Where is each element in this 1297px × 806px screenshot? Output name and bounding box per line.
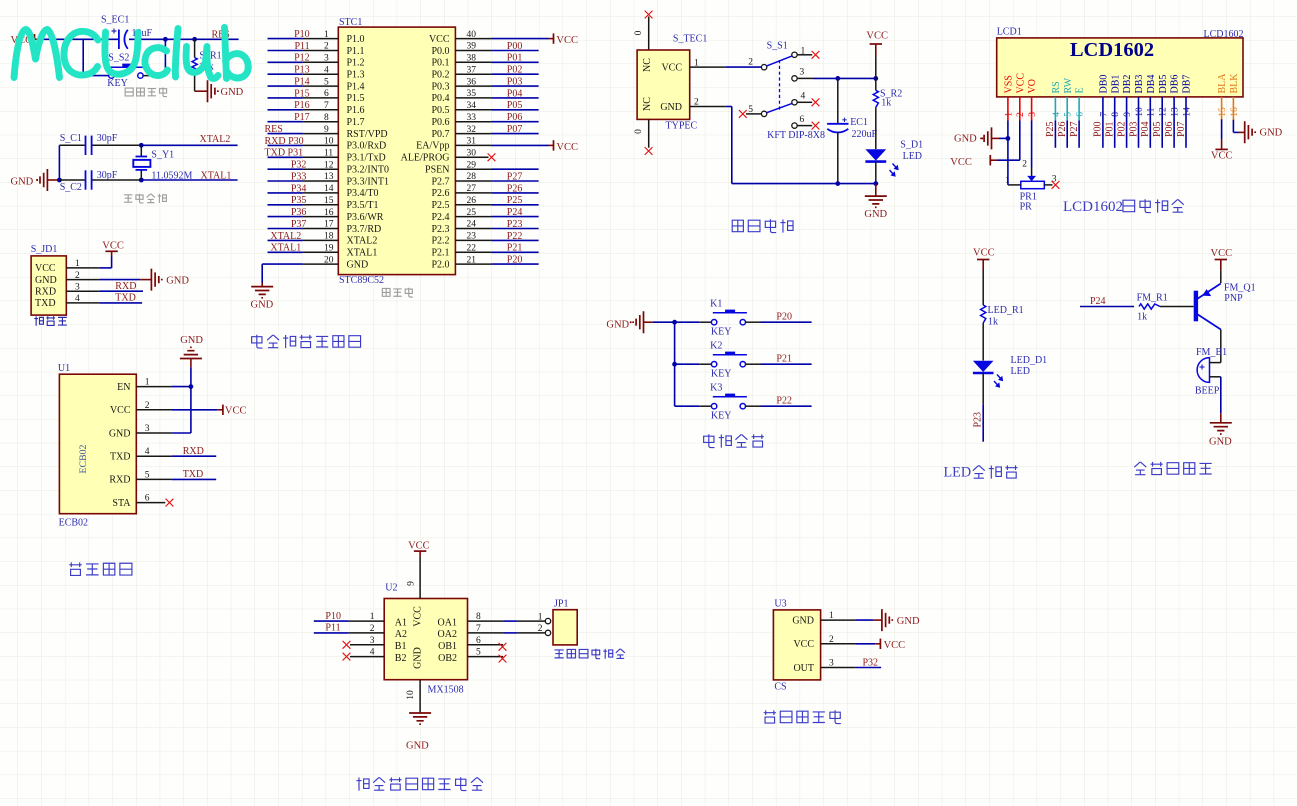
svg-text:DB6: DB6 <box>1170 75 1181 94</box>
svg-text:P2.3: P2.3 <box>431 224 449 235</box>
svg-text:5: 5 <box>1064 112 1074 117</box>
svg-text:STC89C52: STC89C52 <box>339 275 384 286</box>
svg-text:EN: EN <box>117 382 130 393</box>
LCD pin 13 stub <box>1173 97 1175 121</box>
svg-text:VCC: VCC <box>413 606 424 627</box>
svg-text:XTAL1: XTAL1 <box>201 171 232 182</box>
svg-text:1k: 1k <box>881 98 891 109</box>
svg-text:TXD P31: TXD P31 <box>265 148 304 159</box>
svg-text:P2.2: P2.2 <box>431 236 449 247</box>
svg-text:VCC: VCC <box>429 34 450 45</box>
svg-text:P16: P16 <box>294 100 310 111</box>
svg-text:KEY: KEY <box>711 411 732 422</box>
svg-text:XTAL2: XTAL2 <box>270 231 301 242</box>
LCD pin 11 stub <box>1149 97 1151 121</box>
svg-text:P20: P20 <box>776 312 792 323</box>
svg-text:P0.5: P0.5 <box>431 105 449 116</box>
resistor LED_R1 1k <box>981 305 986 323</box>
motor driver U2 body <box>384 599 467 680</box>
wire VCC to FM_Q1 emitter <box>1220 270 1222 283</box>
svg-text:P11: P11 <box>294 41 309 52</box>
svg-text:P05: P05 <box>1152 121 1163 137</box>
svg-text:S_Y1: S_Y1 <box>151 150 174 161</box>
svg-text:FM_R1: FM_R1 <box>1137 293 1168 304</box>
svg-text:GND: GND <box>347 259 369 270</box>
connector S_JD1 body <box>31 256 66 315</box>
svg-text:P25: P25 <box>1045 121 1056 137</box>
svg-text:DB5: DB5 <box>1158 75 1169 94</box>
LED S_D1 <box>865 149 886 160</box>
svg-text:6: 6 <box>1076 112 1086 117</box>
svg-text:LED_R1: LED_R1 <box>988 305 1024 316</box>
svg-text:VCC: VCC <box>950 157 972 168</box>
svg-text:GND: GND <box>897 616 920 627</box>
svg-text:4: 4 <box>1052 112 1062 117</box>
wire cap2 to xtal1 <box>92 179 141 181</box>
svg-text:P0.1: P0.1 <box>431 58 449 69</box>
svg-text:P3.6/WR: P3.6/WR <box>347 212 384 223</box>
node junction (key K2) <box>672 362 677 367</box>
svg-text:P21: P21 <box>776 354 792 365</box>
svg-text:GND: GND <box>413 647 424 669</box>
svg-text:RXD: RXD <box>183 446 204 457</box>
power port VCC (U2) <box>414 550 426 552</box>
svg-text:P10: P10 <box>325 611 341 622</box>
wire to key K1 <box>675 321 700 323</box>
svg-text:P34: P34 <box>291 183 307 194</box>
svg-text:VO: VO <box>1027 79 1038 93</box>
title 电源电路 <box>732 219 793 232</box>
svg-text:P0.3: P0.3 <box>431 81 449 92</box>
svg-text:U3: U3 <box>774 599 786 610</box>
svg-text:GND: GND <box>954 134 977 145</box>
svg-text:CS: CS <box>774 682 786 693</box>
pin 7 (U2 OA2) wire to JP1 <box>468 632 504 634</box>
svg-text:TXD: TXD <box>110 452 131 463</box>
svg-text:P0.0: P0.0 <box>431 46 449 57</box>
connector JP1 body <box>553 610 577 645</box>
ground (U3) <box>882 609 892 631</box>
LCD pin 8 stub <box>1114 97 1116 121</box>
wire P24 to FM_R1 <box>1080 306 1134 308</box>
node junction (cap right / key right) <box>163 37 168 42</box>
svg-text:XTAL1: XTAL1 <box>347 248 378 259</box>
MCU STC1 body <box>338 27 455 275</box>
node junction (resistor top) <box>192 37 197 42</box>
svg-text:P3.3/INT1: P3.3/INT1 <box>347 176 390 187</box>
svg-text:P15: P15 <box>294 88 310 99</box>
svg-text:VCC: VCC <box>661 63 682 74</box>
svg-text:VCC: VCC <box>556 142 578 153</box>
svg-text:OA2: OA2 <box>438 629 457 640</box>
wire FM_R1 to base <box>1160 306 1194 308</box>
svg-text:GND: GND <box>251 300 274 311</box>
svg-text:OB2: OB2 <box>438 653 457 664</box>
switch throw circle pin6 <box>792 123 797 128</box>
svg-text:P32: P32 <box>291 160 307 171</box>
svg-text:P1.1: P1.1 <box>347 46 365 57</box>
svg-text:RS: RS <box>1051 81 1062 93</box>
svg-text:VCC: VCC <box>110 405 131 416</box>
node junction (key K1) <box>672 320 677 325</box>
svg-text:P10: P10 <box>294 29 310 40</box>
svg-text:P01: P01 <box>1105 121 1116 137</box>
svg-text:P2.1: P2.1 <box>431 248 449 259</box>
svg-text:P35: P35 <box>291 195 307 206</box>
ground (S_JD1) <box>151 269 161 291</box>
pin wire U1 RXD <box>136 478 171 480</box>
LCD pin 10 stub <box>1138 97 1140 121</box>
svg-text:P1.4: P1.4 <box>347 81 365 92</box>
svg-text:VCC: VCC <box>1211 248 1233 259</box>
wire VCC down to node <box>875 56 877 78</box>
svg-text:KEY: KEY <box>107 78 128 89</box>
svg-text:DB2: DB2 <box>1122 75 1133 94</box>
svg-text:P3.0/RxD: P3.0/RxD <box>347 141 387 152</box>
svg-text:JP1: JP1 <box>554 599 568 610</box>
svg-text:8: 8 <box>1111 112 1121 117</box>
LCD pin 9 stub <box>1126 97 1128 121</box>
title 按键电路 <box>704 434 764 447</box>
svg-text:A2: A2 <box>395 629 407 640</box>
wire LED to bottom rail <box>875 162 877 184</box>
svg-text:S_JD1: S_JD1 <box>31 244 58 255</box>
svg-text:0: 0 <box>634 30 644 35</box>
svg-text:9: 9 <box>407 581 417 586</box>
wire U1 EN to gnd node <box>136 386 171 388</box>
svg-text:P01: P01 <box>507 53 523 64</box>
svg-text:DB0: DB0 <box>1099 75 1110 94</box>
svg-text:LCD1: LCD1 <box>997 27 1022 38</box>
switch throw circle pin1 <box>792 52 797 57</box>
svg-text:P3.4/T0: P3.4/T0 <box>347 188 379 199</box>
wire gnd up to top cap row <box>58 145 60 180</box>
svg-text:P24: P24 <box>507 207 523 218</box>
switch link (dashed) <box>779 60 781 111</box>
wire resistor to ground <box>194 74 196 92</box>
svg-text:VCC: VCC <box>884 640 906 651</box>
wire U1 VCC <box>136 409 171 411</box>
svg-text:P22: P22 <box>776 396 792 407</box>
svg-text:P06: P06 <box>1164 121 1175 137</box>
connector S_TEC1 body <box>637 50 690 119</box>
svg-text:E: E <box>1075 87 1086 93</box>
comment 晶振电路 <box>124 194 166 203</box>
power port VCC (LCD backlight) <box>1215 148 1227 150</box>
LCD pin 4 stub <box>1054 97 1056 121</box>
svg-text:P37: P37 <box>291 219 307 230</box>
switch throw circle pin4 <box>792 100 797 105</box>
svg-text:VCC: VCC <box>793 639 814 650</box>
comment 按键复位 <box>125 87 167 96</box>
svg-text:GND: GND <box>660 102 682 113</box>
svg-text:P32: P32 <box>863 658 879 669</box>
svg-text:P25: P25 <box>507 195 523 206</box>
svg-text:XTAL2: XTAL2 <box>347 236 378 247</box>
svg-text:DB3: DB3 <box>1134 75 1145 94</box>
wire TYPEC GND down and across (bottom rail) <box>731 107 733 184</box>
svg-text:NC: NC <box>642 58 653 72</box>
wire key branch bottom right <box>143 75 165 77</box>
LCD pin 12 stub <box>1161 97 1163 121</box>
svg-text:ALE/PROG: ALE/PROG <box>401 153 450 164</box>
LCD pin 3 stub <box>1031 97 1033 121</box>
svg-text:BLK: BLK <box>1229 73 1240 94</box>
svg-text:P0.4: P0.4 <box>431 93 449 104</box>
wire VCC to S_EC1 <box>43 38 118 40</box>
svg-text:P1.0: P1.0 <box>347 34 365 45</box>
svg-text:GND: GND <box>406 741 429 752</box>
svg-text:GND: GND <box>792 616 814 627</box>
wire VCC to LED_R1 <box>982 270 984 306</box>
svg-text:PR: PR <box>1020 202 1033 213</box>
svg-text:4: 4 <box>801 92 806 102</box>
svg-text:VCC: VCC <box>556 35 578 46</box>
svg-text:2: 2 <box>748 58 753 68</box>
svg-text:P1.3: P1.3 <box>347 70 365 81</box>
svg-text:P05: P05 <box>507 100 523 111</box>
wire buzzer to gnd <box>1220 377 1222 414</box>
svg-text:GND: GND <box>221 87 244 98</box>
svg-text:LCD1602: LCD1602 <box>1070 39 1154 61</box>
svg-text:XTAL1: XTAL1 <box>270 243 301 254</box>
svg-text:P12: P12 <box>294 53 310 64</box>
svg-text:13: 13 <box>1171 107 1181 117</box>
node junction (VSS/gnd/pot) <box>1006 136 1011 141</box>
svg-text:P00: P00 <box>1093 121 1104 137</box>
svg-text:RXD: RXD <box>115 281 136 292</box>
svg-text:LED: LED <box>903 151 922 162</box>
sensor U3 body <box>773 610 820 680</box>
svg-text:P13: P13 <box>294 65 310 76</box>
ground (buzzer) <box>1210 423 1232 434</box>
wire key branch bottom left <box>83 75 109 77</box>
pin 3 (U2 B1) no-connect <box>350 644 384 646</box>
svg-text:P3.5/T1: P3.5/T1 <box>347 200 379 211</box>
no-connect X (TYPEC top) <box>645 11 653 19</box>
ground (power circuit) <box>875 184 877 197</box>
resistor FM_R1 1k <box>1139 304 1160 309</box>
svg-text:P1.2: P1.2 <box>347 58 365 69</box>
ground (MCU pin 20) <box>251 287 273 298</box>
svg-text:K1: K1 <box>710 298 722 309</box>
svg-text:P23: P23 <box>973 412 984 428</box>
wire LED_R1 to LED_D1 <box>982 323 984 361</box>
wire to key K2 <box>675 363 700 365</box>
svg-text:GND: GND <box>1260 128 1283 139</box>
svg-text:NC: NC <box>642 97 653 111</box>
wire EC1 to bottom rail <box>837 132 839 183</box>
svg-text:P11: P11 <box>325 623 340 634</box>
svg-text:VSS: VSS <box>1004 75 1015 93</box>
svg-text:6: 6 <box>800 115 805 125</box>
transistor FM_Q1 PNP <box>1194 291 1198 322</box>
svg-text:P3.2/INT0: P3.2/INT0 <box>347 165 390 176</box>
svg-text:9: 9 <box>1123 112 1133 117</box>
LCD pin 5 stub <box>1066 97 1068 121</box>
svg-text:3: 3 <box>1028 112 1038 117</box>
svg-text:2: 2 <box>538 624 543 634</box>
svg-text:1k: 1k <box>1137 311 1147 322</box>
svg-text:2: 2 <box>1022 159 1027 169</box>
wire BLA to VCC <box>1221 119 1223 139</box>
svg-text:P00: P00 <box>507 41 523 52</box>
ground (U2) <box>409 713 431 724</box>
pin wire U1 TXD <box>136 455 171 457</box>
svg-text:RW: RW <box>1063 77 1074 93</box>
resistor S_R2 1k <box>875 78 877 90</box>
svg-text:TXD: TXD <box>35 298 56 309</box>
svg-text:FM_B1: FM_B1 <box>1196 347 1227 358</box>
LED LED_D1 <box>973 361 994 372</box>
svg-text:PNP: PNP <box>1224 293 1243 304</box>
crystal S_Y1 <box>139 143 144 148</box>
wire cap1 to xtal2 <box>92 144 141 146</box>
svg-text:GND: GND <box>864 209 887 220</box>
svg-text:RXD P30: RXD P30 <box>265 136 304 147</box>
svg-text:1: 1 <box>538 612 543 622</box>
svg-text:11: 11 <box>1147 107 1157 116</box>
LCD pin 15 stub <box>1221 97 1223 121</box>
svg-text:P2.6: P2.6 <box>431 188 449 199</box>
LCD pin 2 stub <box>1019 97 1021 121</box>
svg-text:P36: P36 <box>291 207 307 218</box>
ground (reset) <box>208 80 218 102</box>
svg-text:VCC: VCC <box>1211 151 1233 162</box>
svg-text:P1.6: P1.6 <box>347 105 365 116</box>
wire gnd node down to U1 GND <box>190 387 192 433</box>
svg-text:P3.7/RD: P3.7/RD <box>347 224 382 235</box>
svg-text:STA: STA <box>112 498 131 509</box>
svg-text:P03: P03 <box>507 77 523 88</box>
svg-text:P17: P17 <box>294 112 310 123</box>
svg-text:GND: GND <box>35 275 57 286</box>
LCD pin 7 stub <box>1102 97 1104 121</box>
wire key bus vertical <box>674 322 676 406</box>
svg-text:P2.7: P2.7 <box>431 176 449 187</box>
pin 1 (U2 A1) wire <box>349 620 385 622</box>
wire key K1 to net <box>746 321 761 323</box>
title 蜂鸣器电路 <box>1134 462 1211 475</box>
svg-text:K2: K2 <box>710 340 722 351</box>
svg-text:GND: GND <box>606 320 629 331</box>
svg-text:DB7: DB7 <box>1182 75 1193 94</box>
svg-text:PSEN: PSEN <box>425 165 449 176</box>
svg-text:EA/Vpp: EA/Vpp <box>416 141 449 152</box>
svg-text:P04: P04 <box>507 88 523 99</box>
svg-text:LED: LED <box>944 465 972 481</box>
comment 下载口 <box>34 316 67 326</box>
svg-text:P02: P02 <box>1116 121 1127 137</box>
wire LED_D1 down <box>982 373 984 404</box>
svg-text:P23: P23 <box>507 219 523 230</box>
svg-text:S_EC1: S_EC1 <box>101 15 129 26</box>
svg-text:P1.5: P1.5 <box>347 93 365 104</box>
node junction (EC1 top) <box>835 76 840 81</box>
switch pole circle pin2 <box>761 65 766 70</box>
svg-text:OA1: OA1 <box>438 617 457 628</box>
svg-text:P27: P27 <box>507 171 523 182</box>
wire pin3 to power rail <box>797 77 813 79</box>
switch blade 5-4 <box>766 103 792 112</box>
pin wire U1 STA with no-connect <box>136 502 165 504</box>
svg-text:11.0592M: 11.0592M <box>151 171 192 182</box>
svg-text:VCC: VCC <box>102 240 124 251</box>
svg-text:S_C2: S_C2 <box>60 182 82 193</box>
svg-text:LCD1602: LCD1602 <box>1063 199 1123 215</box>
svg-text:TXD: TXD <box>183 469 204 480</box>
svg-text:FM_Q1: FM_Q1 <box>1224 282 1256 293</box>
svg-text:P24: P24 <box>1090 296 1106 307</box>
svg-text:220uF: 220uF <box>852 129 878 140</box>
svg-text:U2: U2 <box>385 583 397 594</box>
svg-text:RES: RES <box>265 124 283 135</box>
svg-text:RXD: RXD <box>35 287 56 298</box>
svg-text:P07: P07 <box>1176 121 1187 137</box>
svg-text:10: 10 <box>406 690 416 700</box>
wire pot pin1 up to gnd node <box>1008 184 1021 186</box>
svg-text:16: 16 <box>1230 107 1240 117</box>
wire to key K3 <box>675 405 700 407</box>
pin 6 (U2 OB1) no-connect <box>468 644 504 646</box>
svg-text:VCC: VCC <box>973 247 995 258</box>
svg-text:P22: P22 <box>507 231 523 242</box>
wire key K2 to net <box>746 363 761 365</box>
svg-text:P06: P06 <box>507 112 523 123</box>
svg-text:A1: A1 <box>395 617 407 628</box>
svg-text:LED: LED <box>1011 366 1030 377</box>
power port VCC (U1) <box>222 405 224 415</box>
svg-text:RXD: RXD <box>109 475 130 486</box>
svg-text:0: 0 <box>634 129 644 134</box>
svg-text:RST/VPD: RST/VPD <box>347 129 388 140</box>
JP1 comment 直流电机插座 <box>555 649 625 659</box>
bluetooth module U1 body <box>59 374 136 514</box>
title 测速传感器 <box>764 710 841 723</box>
svg-text:3: 3 <box>800 68 805 78</box>
svg-text:BEEP: BEEP <box>1195 386 1220 397</box>
svg-text:10: 10 <box>1135 107 1145 117</box>
LCD pin 6 stub <box>1078 97 1080 121</box>
title 直流电机驱动模块 <box>356 777 483 790</box>
node junction (U1 EN/GND) <box>189 384 194 389</box>
svg-text:P14: P14 <box>294 77 310 88</box>
svg-text:TYPEC: TYPEC <box>666 121 698 132</box>
svg-text:30pF: 30pF <box>97 133 118 144</box>
switch blade 2-1 <box>766 56 792 66</box>
node junction (S_R2 top) <box>873 76 878 81</box>
svg-text:S_D1: S_D1 <box>900 140 923 151</box>
svg-text:DB1: DB1 <box>1110 75 1121 94</box>
capacitor S_EC1 10uF (polarized) <box>118 30 120 50</box>
svg-text:S_S2: S_S2 <box>108 53 129 64</box>
ground (LCD right) <box>1245 121 1255 143</box>
power port VCC (U3) <box>879 639 881 649</box>
switch pole circle pin5 <box>761 111 766 116</box>
svg-text:P03: P03 <box>1128 121 1139 137</box>
svg-text:EC1: EC1 <box>850 117 868 128</box>
LCD pin 1 stub <box>1007 97 1009 121</box>
svg-text:P26: P26 <box>507 183 523 194</box>
switch throw circle pin3 <box>792 76 797 81</box>
pin 3 (U3 OUT) wire <box>821 667 856 669</box>
svg-text:VCC: VCC <box>1015 73 1026 94</box>
svg-text:XTAL2: XTAL2 <box>200 134 231 145</box>
svg-text:ECB02: ECB02 <box>78 444 89 473</box>
svg-text:GND: GND <box>180 335 203 346</box>
wire key branch left vertical <box>82 39 84 75</box>
svg-text:GND: GND <box>11 176 34 187</box>
